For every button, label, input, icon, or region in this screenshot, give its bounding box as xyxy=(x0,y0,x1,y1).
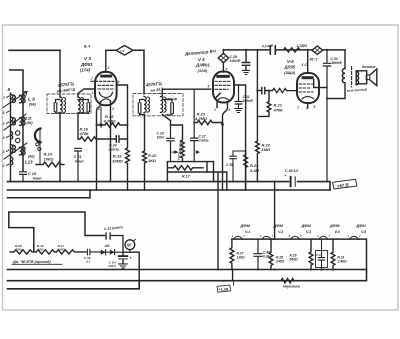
svg-text:Комп: Комп xyxy=(33,177,43,181)
resistor R31 xyxy=(331,239,347,269)
svg-text:470К: 470К xyxy=(79,131,90,136)
wire top bus V4-V5 xyxy=(223,49,345,51)
label MG2 xyxy=(310,58,318,62)
label Ad xyxy=(104,244,111,248)
svg-text:700пФ: 700пФ xyxy=(167,98,178,102)
svg-text:Связь: Связь xyxy=(109,147,120,151)
label L9 xyxy=(28,97,36,107)
wire T2 secondary top to V4 grid xyxy=(162,89,211,96)
svg-text:1: 1 xyxy=(297,106,299,110)
svg-text:Наушники: Наушники xyxy=(283,285,301,289)
svg-text:(54): (54) xyxy=(27,121,34,125)
filament hump V4 xyxy=(319,236,328,239)
svg-text:0,1мкФ: 0,1мкФ xyxy=(262,44,274,49)
svg-text:(1S5): (1S5) xyxy=(198,68,208,73)
output transformer T3 xyxy=(327,50,368,99)
capacitor C31 xyxy=(235,85,253,113)
svg-text:В.Ч: В.Ч xyxy=(84,45,91,49)
svg-text:1 С: 1 С xyxy=(302,63,308,67)
svg-text:5: 5 xyxy=(118,81,120,85)
svg-text:С.42: С.42 xyxy=(316,253,323,257)
pin ticks left edge xyxy=(7,96,10,166)
svg-text:2: 2 xyxy=(2,164,5,168)
speaker xyxy=(356,65,377,86)
capacitor C34 electrolytic xyxy=(108,252,133,268)
tube V5 xyxy=(297,73,319,103)
wire V3 pin3 down xyxy=(110,102,112,182)
svg-text:Комп: Комп xyxy=(75,159,85,163)
label V3 xyxy=(80,45,93,73)
wire antenna inner corner xyxy=(10,70,23,170)
label V4 xyxy=(195,57,210,73)
resistor R28 xyxy=(269,239,284,269)
svg-text:4: 4 xyxy=(225,67,228,71)
coil T2 secondary xyxy=(161,97,163,113)
svg-text:L11: L11 xyxy=(26,117,32,121)
svg-text:3: 3 xyxy=(3,150,5,154)
svg-text:C 19: C 19 xyxy=(28,172,37,176)
label battery note xyxy=(12,260,51,264)
svg-text:C.38 8,0: C.38 8,0 xyxy=(285,169,298,173)
capacitor C25 (T2 secondary) xyxy=(162,100,173,115)
svg-text:.8: .8 xyxy=(7,87,11,92)
svg-text:5: 5 xyxy=(314,105,316,109)
wire loop right drops xyxy=(207,162,227,270)
svg-text:динамик: динамик xyxy=(362,65,376,69)
coil L9 xyxy=(3,92,27,108)
bus line B xyxy=(8,270,367,281)
capacitor C29 to ground xyxy=(230,50,250,75)
svg-text:(3Щ4): (3Щ4) xyxy=(284,70,296,75)
coil L13 xyxy=(4,143,27,165)
svg-text:100,0: 100,0 xyxy=(108,264,116,268)
bus line 3 xyxy=(8,190,91,198)
capacitor C33 xyxy=(323,50,342,182)
jack arc xyxy=(35,129,41,143)
svg-text:C.35: C.35 xyxy=(226,163,233,167)
svg-text:ДФ96: ДФ96 xyxy=(273,224,285,228)
IF transformer T1 box xyxy=(47,94,91,114)
capacitor C32 series xyxy=(262,44,275,54)
pin digits left edge xyxy=(2,96,7,168)
capacitor C21 xyxy=(74,148,85,181)
wire long drop x274 xyxy=(274,182,276,240)
capacitor C19 xyxy=(20,170,43,182)
pin numbers V3 xyxy=(91,66,115,111)
IF transformer T2 box xyxy=(133,94,183,116)
svg-text:V-5: V-5 xyxy=(287,59,294,64)
svg-text:1КΩ: 1КΩ xyxy=(148,158,157,163)
svg-text:Ад.: Ад. xyxy=(104,244,111,248)
svg-text:0,1: 0,1 xyxy=(86,259,91,263)
potentiometer R volume xyxy=(171,125,185,162)
wire V5 bottom stub xyxy=(307,103,309,108)
battery box wires xyxy=(9,212,105,252)
svg-text:10МΩ: 10МΩ xyxy=(112,158,124,163)
resistor R17 loop xyxy=(167,162,213,179)
wire V5 grid drop xyxy=(307,50,309,73)
svg-text:4,7МΩ: 4,7МΩ xyxy=(103,119,117,124)
label 700pF xyxy=(167,98,178,102)
tag +67V xyxy=(333,179,358,189)
resistor R23 row xyxy=(194,111,223,124)
svg-text:+1,2В: +1,2В xyxy=(219,288,229,292)
wire V4 plate right xyxy=(234,85,246,190)
label T1 frequency xyxy=(56,81,77,94)
filament hump V2 xyxy=(262,236,271,239)
svg-text:1: 1 xyxy=(214,108,216,112)
svg-text:4: 4 xyxy=(91,91,94,95)
resistor phones on busB xyxy=(281,278,294,283)
coil T1 secondary xyxy=(78,97,80,113)
label T2 frequency xyxy=(145,81,165,94)
svg-text:C 21: C 21 xyxy=(74,155,82,159)
svg-text:V 4: V 4 xyxy=(198,57,205,62)
svg-text:500пФ: 500пФ xyxy=(332,61,343,65)
tube V3 xyxy=(91,72,117,105)
pin numbers V5 xyxy=(297,105,316,111)
svg-text:1МΩ: 1МΩ xyxy=(262,147,272,152)
filament hump V5 xyxy=(350,236,359,239)
coil L11 xyxy=(4,114,26,130)
svg-text:100Ω: 100Ω xyxy=(57,247,65,251)
svg-text:100п: 100п xyxy=(157,135,166,139)
svg-text:ДФ96: ДФ96 xyxy=(329,224,341,228)
svg-text:70Ω: 70Ω xyxy=(16,247,22,251)
svg-text:100пФ: 100пФ xyxy=(230,59,241,63)
wire coupling row y90.6 + capacitor C30 xyxy=(257,87,297,93)
wire V3 screen to R19 line xyxy=(117,85,128,125)
resistor R16 row + capacitor C24 xyxy=(78,127,128,152)
labels chain resistors xyxy=(15,244,65,252)
svg-text:ДФ91: ДФ91 xyxy=(356,224,367,228)
svg-text:5: 5 xyxy=(229,108,231,112)
wire T1 secondary to V3 grid xyxy=(78,89,95,97)
pin label V5 top xyxy=(302,63,308,67)
resistor R25 xyxy=(284,44,308,52)
svg-text:М: М xyxy=(127,243,131,248)
microphone circle M xyxy=(125,239,135,252)
svg-text:L13: L13 xyxy=(25,160,33,165)
svg-text:470К: 470К xyxy=(273,107,284,112)
svg-text:3,3М: 3,3М xyxy=(250,168,260,173)
svg-text:4,7МΩ: 4,7МΩ xyxy=(194,116,208,121)
wire V3 plate bus xyxy=(106,50,144,94)
wire from antenna corner down through IF1 primary xyxy=(59,50,61,181)
wire jack to R14 xyxy=(39,130,41,165)
bus line A xyxy=(8,269,367,271)
wire T2 secondary bottom xyxy=(162,115,170,126)
filament wire xyxy=(232,239,367,269)
capacitor C23 (T2 primary) xyxy=(138,100,144,115)
capacitor C16 small xyxy=(84,249,100,263)
coil T2 primary xyxy=(144,97,146,113)
resistor R24 xyxy=(244,151,260,190)
diode D2 xyxy=(110,250,115,255)
label phones xyxy=(283,285,301,289)
capacitor C15 xyxy=(104,225,124,252)
svg-text:120Ω: 120Ω xyxy=(237,256,246,260)
pin numbers V4 xyxy=(208,67,231,112)
svg-text:(1Т4): (1Т4) xyxy=(80,67,91,72)
svg-text:(96): (96) xyxy=(29,103,36,107)
ground battery xyxy=(119,264,128,268)
resistor R27 xyxy=(230,239,245,269)
junction dots bottom xyxy=(138,238,334,271)
label V5 xyxy=(284,59,296,75)
svg-text:560Ω: 560Ω xyxy=(290,258,299,262)
capacitor C35 xyxy=(226,151,246,182)
filament hump V1 xyxy=(234,236,243,239)
filament hump V3 xyxy=(291,236,300,239)
arrow V3 avc xyxy=(100,108,102,125)
bus line C xyxy=(8,281,140,289)
label L13 xyxy=(25,155,35,165)
resistor R11 xyxy=(56,250,86,254)
svg-text:V 3: V 3 xyxy=(84,56,91,61)
resistor R18 row xyxy=(97,114,128,127)
wire V3 plate up xyxy=(105,50,107,71)
wire V4 bottom + arrow xyxy=(217,103,228,191)
resistor R19 xyxy=(112,125,130,190)
svg-text:R.17: R.17 xyxy=(182,174,191,178)
capacitor C27 xyxy=(191,89,209,161)
svg-text:2,2МΩ: 2,2МΩ xyxy=(296,44,308,48)
meter M2 xyxy=(218,50,228,72)
wire T2 primary bottom down / resistor R20 xyxy=(143,115,147,191)
svg-text:V.1: V.1 xyxy=(245,230,250,234)
meter M3 xyxy=(312,46,323,54)
capacitor C38 xyxy=(284,169,298,186)
svg-text:4: 4 xyxy=(2,136,5,140)
bus line 2 xyxy=(8,189,331,191)
wire left column xyxy=(10,93,12,182)
svg-text:ДФ96: ДФ96 xyxy=(301,224,313,228)
wire B+ drop x257 / resistor R22 xyxy=(255,50,271,182)
svg-text:ДЛ95: ДЛ95 xyxy=(284,65,296,70)
coil T1 primary xyxy=(60,97,62,113)
svg-text:3: 3 xyxy=(112,107,114,111)
resistor R29 xyxy=(290,239,313,269)
svg-text:ДАФ91: ДАФ91 xyxy=(195,63,210,68)
resistor R9 xyxy=(10,250,36,254)
wire loop bottom to bus xyxy=(166,172,168,182)
svg-text:ДА. ЧЕ.Е7В (провод): ДА. ЧЕ.Е7В (провод) xyxy=(12,260,51,264)
svg-text:10КΩ: 10КΩ xyxy=(44,156,55,161)
capacitor C22 (T1 secondary) xyxy=(78,100,90,114)
svg-text:МГ.2: МГ.2 xyxy=(310,58,318,62)
svg-text:(60): (60) xyxy=(28,155,35,159)
svg-text:2,4КΩ: 2,4КΩ xyxy=(337,260,348,264)
small coil mid xyxy=(11,132,13,140)
diode D1 xyxy=(101,250,106,255)
capacitor C42 boxed xyxy=(316,239,328,269)
svg-text:22Ω: 22Ω xyxy=(37,247,44,251)
trimmer circles xyxy=(16,131,20,135)
svg-text:1,5: 1,5 xyxy=(120,49,125,53)
wire antenna top xyxy=(9,49,60,51)
tag +1.2V xyxy=(217,281,234,293)
wire battery box right xyxy=(123,252,139,281)
capacitor C20 (T1 primary) xyxy=(54,100,60,114)
svg-text:100пФ: 100пФ xyxy=(243,99,254,103)
wire V5 plate right xyxy=(319,87,327,89)
junction dots xyxy=(96,49,329,191)
label L11 xyxy=(26,117,34,126)
label L8 top xyxy=(7,87,11,92)
svg-text:6: 6 xyxy=(208,85,210,89)
svg-text:2: 2 xyxy=(107,66,110,70)
bus line B+ top xyxy=(8,182,331,190)
label detector stage xyxy=(184,49,217,57)
svg-text:V.4: V.4 xyxy=(335,230,340,234)
resistor R14 xyxy=(36,152,64,167)
wire V3 cathode down xyxy=(97,102,101,190)
jumper busA-busB xyxy=(232,270,234,281)
svg-text:ДФ96: ДФ96 xyxy=(240,224,252,228)
filament pin digits xyxy=(232,234,362,238)
resistor R10 xyxy=(36,250,56,254)
capacitor C40 xyxy=(254,239,270,269)
svg-text:Связь: Связь xyxy=(199,139,209,143)
capacitor C26 xyxy=(157,125,175,162)
meter M1 xyxy=(116,46,133,56)
resistor R21 xyxy=(257,91,283,117)
filament labels xyxy=(240,224,368,234)
svg-text:240Ω: 240Ω xyxy=(275,260,285,264)
svg-text:ДФ91: ДФ91 xyxy=(80,62,93,67)
wire T1 secondary bottom down xyxy=(77,113,79,139)
tube V4 xyxy=(213,72,234,103)
